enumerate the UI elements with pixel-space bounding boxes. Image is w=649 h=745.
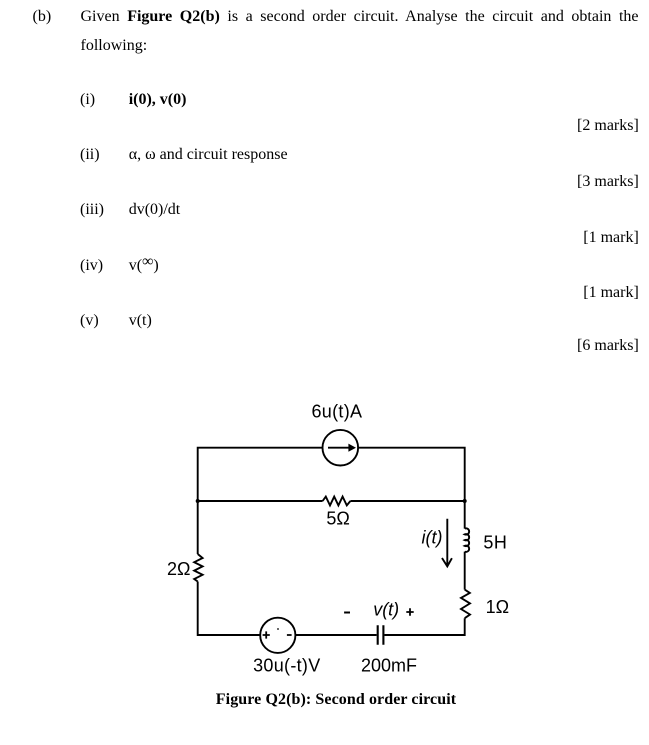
svg-text:5H: 5H	[483, 532, 507, 552]
svg-text:5Ω: 5Ω	[326, 509, 349, 529]
svg-text:2Ω: 2Ω	[167, 559, 190, 579]
svg-text:v(t): v(t)	[373, 600, 399, 620]
svg-text:200mF: 200mF	[361, 655, 417, 675]
svg-text:1Ω: 1Ω	[486, 597, 509, 617]
svg-text:30u(-t)V: 30u(-t)V	[253, 655, 320, 675]
svg-text:6u(t)A: 6u(t)A	[312, 402, 363, 422]
svg-text:i(t): i(t)	[422, 528, 443, 548]
